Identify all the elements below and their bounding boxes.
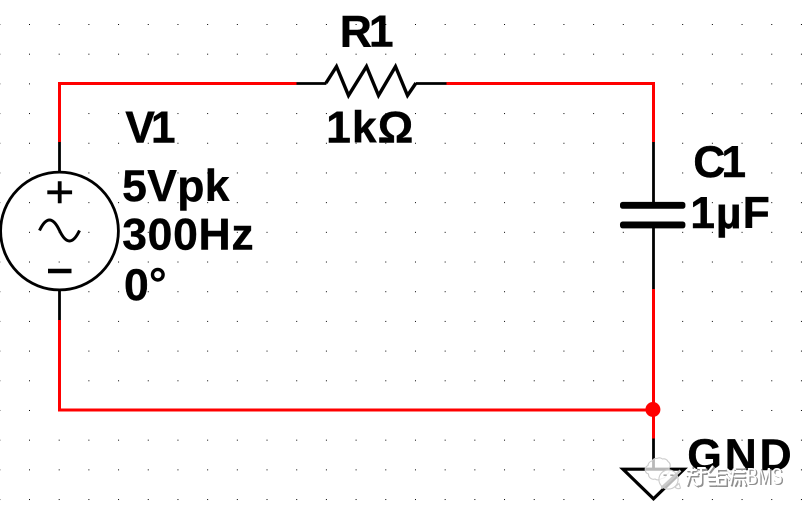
svg-text:R1: R1 (340, 8, 393, 57)
svg-text:C1: C1 (693, 138, 745, 187)
svg-text:1kΩ: 1kΩ (326, 103, 414, 152)
svg-text:1µF: 1µF (690, 189, 771, 238)
svg-text:300Hz: 300Hz (122, 211, 254, 260)
svg-text:0: 0 (124, 261, 149, 310)
svg-text:V1: V1 (125, 104, 175, 153)
svg-text:5Vpk: 5Vpk (122, 162, 230, 211)
svg-text:BMS: BMS (747, 464, 783, 489)
